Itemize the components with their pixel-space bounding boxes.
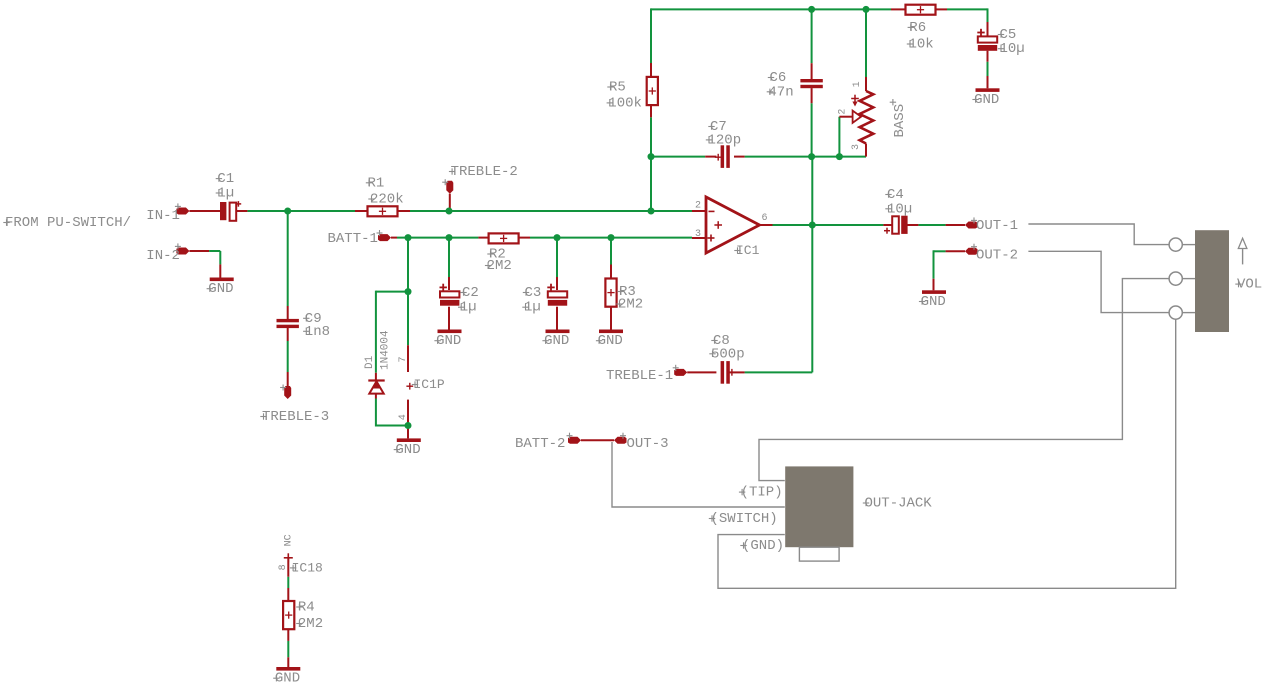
wire BASS wiper branch [838, 117, 840, 157]
svg-text:(TIP): (TIP) [741, 485, 783, 501]
junction D1 bottom [405, 422, 412, 429]
svg-text:6: 6 [762, 213, 768, 224]
wire BASS pin1 branch x=866 [865, 9, 867, 77]
connector OUT-JACK body [785, 466, 853, 561]
wire IC1P pin4 lead [407, 400, 409, 426]
label IC1P [412, 377, 445, 392]
op-amp IC1 [706, 197, 760, 253]
resistor R6 [906, 5, 936, 15]
label IC1 [734, 243, 759, 258]
junction mid-left [648, 153, 655, 160]
value R3 2M2 [616, 297, 643, 313]
label TIP [739, 485, 783, 501]
gray wire OUT-2 to VOL pot [1028, 251, 1168, 312]
wire OUT-2 lead [946, 250, 965, 252]
wire C9 branch x=287.7 [287, 211, 289, 372]
wire IN-2 lead [189, 250, 209, 252]
svg-text:IC1: IC1 [736, 243, 760, 258]
resistor R3 [605, 279, 616, 307]
wire C6 leads [811, 63, 813, 103]
svg-text:4: 4 [398, 414, 409, 420]
label C9 [303, 311, 322, 327]
svg-text:2M2: 2M2 [487, 258, 512, 274]
label R2 [487, 247, 506, 263]
value R1 220k [368, 192, 403, 208]
svg-text:100k: 100k [608, 95, 642, 111]
diode D1 [368, 379, 384, 393]
label NC [284, 534, 295, 546]
value C1 1u [216, 186, 235, 202]
wire output vertical x=812.3 [811, 157, 813, 373]
wire C4 leads [883, 224, 918, 226]
svg-text:1n8: 1n8 [305, 324, 330, 340]
label R3 [617, 284, 636, 300]
wire C5 to GND [987, 62, 989, 76]
gray wire OUT-1 to VOL pot [1028, 224, 1168, 245]
pin BATT-2 [515, 433, 581, 452]
svg-text:8: 8 [278, 564, 289, 570]
pin OUT-3 [614, 433, 669, 452]
capacitor C6 [800, 79, 822, 88]
svg-text:GND: GND [436, 333, 461, 349]
wire C3 leads [556, 277, 558, 330]
value R4 2M2 [296, 616, 323, 632]
wire IC1P pin7 lead [407, 345, 409, 372]
capacitor C8 [721, 361, 736, 384]
ground below C3 [542, 330, 569, 350]
svg-text:R4: R4 [298, 600, 315, 616]
value C3 1u [522, 300, 541, 316]
svg-text:GND: GND [395, 442, 420, 458]
potentiometer VOL body [1195, 230, 1229, 332]
wire C9 leads [287, 306, 289, 341]
svg-text:C3: C3 [525, 285, 542, 301]
wire C2 leads [448, 277, 450, 330]
wire mid row y=156.6 [651, 156, 866, 158]
value R2 2M2 [485, 258, 512, 274]
gray wire VOL wiper to jack TIP [759, 279, 1169, 481]
wire C5 leads [987, 22, 989, 62]
pin TREBLE-2 [442, 164, 518, 194]
wire R3 leads [610, 265, 612, 330]
junction BATT/C3 [554, 234, 561, 241]
label R1 [366, 175, 385, 191]
capacitor C9 [277, 319, 299, 328]
capacitor C4 (polarized, horizontal) [884, 216, 908, 234]
resistor R2 [489, 233, 519, 243]
wire C6 branch x=811.6 [811, 9, 813, 156]
svg-text:10µ: 10µ [1000, 41, 1025, 57]
wire C5 gnd lead [987, 76, 989, 88]
label SWITCH [709, 511, 778, 527]
svg-text:120p: 120p [708, 132, 742, 148]
junction mid/wiper [836, 153, 843, 160]
svg-text:GND: GND [921, 294, 946, 310]
svg-text:2: 2 [837, 109, 848, 115]
wire R1 leads [355, 210, 410, 212]
svg-text:OUT-JACK: OUT-JACK [865, 496, 933, 512]
wire IC18 pin8 lead [287, 558, 289, 577]
label C2 [460, 285, 479, 301]
ic pin IC18 (NC) [284, 553, 293, 562]
wire IN-2 to GND [209, 251, 220, 264]
value C5 10u [998, 41, 1025, 57]
wire IC1 pin leads [692, 211, 773, 238]
value C9 1n8 [303, 324, 330, 340]
resistor R1 [368, 206, 398, 216]
label BASS [890, 99, 908, 138]
label C7 [708, 119, 727, 135]
wire C3 branch [556, 238, 558, 277]
svg-text:FROM PU-SWITCH/: FROM PU-SWITCH/ [5, 215, 131, 231]
pin label 1 BASS [852, 81, 863, 87]
pin label 8 IC18 [278, 564, 289, 570]
label VOL [1235, 277, 1262, 293]
wire OUT-2 gnd lead [933, 279, 935, 291]
pin label 6 IC1 [762, 213, 768, 224]
value C6 47n [767, 84, 794, 100]
gray wire jack GND loop to VOL pot bottom [718, 319, 1176, 588]
junction D1 top [405, 288, 412, 295]
wire top feedback net y=9.4 [651, 8, 988, 22]
wire TREBLE-2 lead [449, 194, 451, 211]
svg-text:3: 3 [695, 229, 701, 240]
svg-text:D1: D1 [364, 355, 376, 369]
pin label 2 IC1 [695, 200, 701, 211]
wire IC1P supply branch x=408 [407, 238, 409, 346]
svg-text:GND: GND [974, 92, 999, 108]
pin label 3 IC1 [695, 229, 701, 240]
ground below R3 [596, 330, 623, 350]
value D1 1N4004 [379, 330, 391, 370]
pin TREBLE-3 [260, 385, 329, 426]
wire BATT-2 to OUT-3 [581, 439, 614, 441]
svg-text:TREBLE-2: TREBLE-2 [451, 164, 518, 180]
wire TREBLE-1 to C8 [687, 371, 744, 373]
svg-text:GND: GND [544, 333, 569, 349]
wire D1 leads [375, 373, 377, 399]
svg-text:IC18: IC18 [292, 560, 323, 575]
label R4 [296, 600, 315, 616]
junction mid/C6 [808, 153, 815, 160]
ground below C5 [972, 88, 999, 108]
junction main/vert [648, 208, 655, 215]
value C4 10u [885, 201, 912, 217]
label C4 [885, 187, 904, 203]
wire R3 branch [610, 238, 612, 265]
svg-text:2M2: 2M2 [298, 616, 323, 632]
wire R4 leads [287, 588, 289, 641]
svg-text:1: 1 [852, 81, 863, 87]
capacitor C1 (polarized, horizontal) [220, 201, 241, 221]
svg-text:IC1P: IC1P [414, 377, 445, 392]
wire OUT-2 to GND [934, 250, 946, 278]
svg-text:3: 3 [851, 144, 862, 150]
value C8 500p [709, 346, 744, 362]
wire TREBLE-3 lead [287, 372, 289, 387]
label C6 [768, 70, 787, 86]
pin IN-2 [146, 243, 189, 263]
svg-text:C2: C2 [462, 285, 479, 301]
ground below IN-2 [207, 278, 234, 298]
svg-text:BATT-1: BATT-1 [328, 231, 378, 247]
VOL terminal 2 [1169, 272, 1195, 285]
pin label 7 IC1P [398, 356, 409, 362]
value C7 120p [706, 132, 741, 148]
wire input net y=211 [247, 210, 692, 212]
label IC18 [290, 560, 323, 575]
ground below C2 [434, 330, 461, 350]
svg-text:OUT-3: OUT-3 [627, 436, 669, 452]
pin label 4 IC1P [398, 414, 409, 420]
resistor R4 [283, 601, 294, 629]
VOL terminal 1 [1169, 238, 1195, 251]
gray wire OUT-3 to jack SWITCH [612, 442, 785, 507]
wire IC1P gnd lead [407, 426, 409, 439]
wire D1 loop [376, 291, 408, 427]
wire BATT-1 lead [391, 237, 397, 239]
potentiometer BASS [851, 91, 873, 144]
label OUT-JACK [863, 496, 933, 512]
ground below OUT-2 [919, 290, 946, 310]
svg-text:GND: GND [208, 281, 233, 297]
junction top/BASS [863, 6, 870, 13]
wire IN-1 lead [189, 210, 220, 212]
svg-text:10k: 10k [909, 37, 934, 53]
junction main/C9 [284, 208, 291, 215]
label R6 [908, 20, 927, 36]
svg-text:10µ: 10µ [887, 201, 912, 217]
wire R2 leads [478, 237, 530, 239]
wire C8 row y=372.4 [745, 371, 813, 373]
pin IN-1 [146, 203, 189, 224]
label C3 [523, 285, 542, 301]
wire R5 leads [650, 63, 652, 117]
value C2 1u [458, 300, 477, 316]
svg-text:7: 7 [398, 356, 409, 362]
svg-text:47n: 47n [768, 84, 793, 100]
wire left feedback vertical x=651 [650, 8, 652, 211]
svg-text:2M2: 2M2 [618, 297, 643, 313]
capacitor C3 (polarized) [547, 284, 567, 306]
svg-text:1µ: 1µ [460, 300, 477, 316]
junction output [809, 222, 816, 229]
svg-text:TREBLE-1: TREBLE-1 [606, 368, 673, 384]
svg-text:IN-1: IN-1 [146, 208, 180, 224]
label C8 [711, 333, 730, 349]
wire BATT-1 net y=237.6 [397, 237, 692, 239]
junction BATT/IC1P [405, 234, 412, 241]
label C5 [998, 27, 1017, 43]
VOL arrow [1238, 238, 1247, 264]
junction BATT/C2 [446, 234, 453, 241]
wire BASS leads [839, 77, 866, 157]
svg-text:R6: R6 [909, 20, 926, 36]
svg-text:TREBLE-3: TREBLE-3 [262, 409, 329, 425]
svg-text:BATT-2: BATT-2 [515, 436, 565, 452]
svg-text:500p: 500p [711, 346, 745, 362]
capacitor C5 (polarized) [977, 29, 997, 51]
value R5 100k [607, 95, 642, 111]
svg-text:VOL: VOL [1237, 277, 1262, 293]
pin BATT-1 [328, 230, 392, 247]
wire OUT-1 lead [946, 224, 965, 226]
capacitor C7 [715, 145, 730, 168]
svg-text:GND: GND [275, 671, 300, 687]
svg-text:BASS: BASS [892, 104, 908, 138]
op-amp power IC1P [406, 383, 413, 390]
svg-text:OUT-1: OUT-1 [976, 218, 1018, 234]
wire R6 leads [891, 8, 947, 10]
wire C7 leads [705, 156, 744, 158]
wire C2 branch [448, 238, 450, 277]
wire R4 gnd lead [287, 657, 289, 667]
text FROM PU-SWITCH [3, 215, 131, 231]
pin label 2 BASS [837, 109, 848, 115]
wire R4 bottom [287, 641, 289, 657]
VOL terminal 3 [1169, 306, 1195, 319]
svg-text:(SWITCH): (SWITCH) [711, 511, 778, 527]
svg-text:1µ: 1µ [524, 300, 541, 316]
svg-text:OUT-2: OUT-2 [976, 247, 1018, 263]
value R6 10k [907, 37, 934, 53]
ground below IC1P [394, 438, 421, 458]
svg-text:(GND): (GND) [742, 538, 784, 554]
pin TREBLE-1 [606, 365, 687, 384]
junction TREBLE-2 [446, 208, 453, 215]
wire R4 top [287, 577, 289, 588]
label C1 [216, 171, 235, 187]
label R5 [607, 80, 626, 96]
label GND jack [740, 538, 784, 554]
svg-text:2: 2 [695, 200, 701, 211]
svg-text:220k: 220k [370, 192, 404, 208]
pin OUT-1 [965, 217, 1018, 234]
wire C1 right lead [236, 210, 247, 212]
resistor R5 [647, 77, 658, 105]
svg-text:R1: R1 [368, 175, 385, 191]
pin OUT-2 [965, 244, 1018, 264]
svg-text:NC: NC [284, 534, 295, 546]
junction BATT/R3 [608, 234, 615, 241]
pin label 3 BASS [851, 144, 862, 150]
svg-text:1µ: 1µ [217, 186, 234, 202]
wire op-amp output y=225 [773, 224, 946, 226]
svg-text:1N4004: 1N4004 [379, 330, 391, 370]
svg-text:IN-2: IN-2 [146, 248, 180, 264]
ground below R4 [273, 667, 300, 687]
capacitor C2 (polarized) [440, 284, 460, 306]
svg-text:GND: GND [598, 333, 623, 349]
wire IN-2 gnd lead [219, 264, 221, 277]
svg-text:R5: R5 [609, 80, 626, 96]
label D1 [364, 355, 376, 369]
junction top/C6 [808, 6, 815, 13]
